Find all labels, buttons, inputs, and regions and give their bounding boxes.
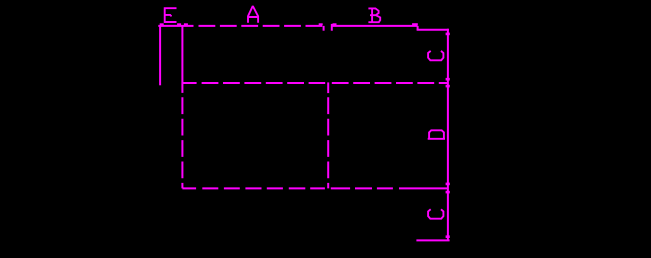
tick E dim right bbox=[177, 23, 181, 25]
tick E dim left bbox=[160, 23, 164, 25]
wire left edge solid part bbox=[181, 26, 183, 93]
tick D dim lower bbox=[446, 183, 450, 186]
wire inner horizontal fold dashed left bbox=[202, 82, 326, 84]
wire right vertical dimension line bbox=[447, 29, 449, 241]
label B bbox=[368, 8, 380, 22]
label E bbox=[165, 8, 177, 22]
wire E dimension line bbox=[158, 25, 193, 27]
wire A dimension dashed line bbox=[199, 25, 323, 27]
wire inner horizontal fold dashed right bbox=[332, 82, 448, 84]
wire top-right edge bbox=[417, 29, 449, 31]
label D (rotated) bbox=[428, 130, 445, 139]
wire bottom-right bar bbox=[416, 239, 449, 241]
tick C bottom dim lower bbox=[446, 235, 450, 238]
wire middle vertical fold dashed bbox=[327, 97, 329, 188]
wire bottom edge solid right bbox=[399, 187, 448, 189]
wire bottom edge dashed left bbox=[182, 187, 325, 189]
wire flap edge right bbox=[331, 24, 333, 31]
tick A dim right bbox=[319, 23, 323, 25]
wire E left extension line bbox=[159, 26, 161, 85]
label A bbox=[248, 7, 258, 23]
tick B dim left bbox=[333, 23, 337, 25]
label C top (rotated) bbox=[428, 51, 443, 60]
wire left edge dashed part bbox=[181, 97, 183, 188]
wire inner horizontal fold solid start bbox=[182, 82, 196, 84]
wire bottom edge dashed right bbox=[331, 187, 393, 189]
wire flap edge left bbox=[323, 26, 325, 31]
wire B dimension line bbox=[332, 25, 418, 27]
tick D dim upper bbox=[446, 85, 450, 88]
label C bottom (rotated) bbox=[428, 209, 443, 218]
wire top-right jog bbox=[417, 26, 419, 30]
wire middle vertical fold solid start bbox=[327, 82, 329, 93]
tick C top dim upper bbox=[446, 33, 450, 36]
tick A dim left bbox=[184, 23, 188, 25]
tick C bottom dim upper bbox=[446, 191, 450, 194]
tick C top dim lower bbox=[446, 78, 450, 81]
tick B dim right bbox=[412, 23, 418, 25]
